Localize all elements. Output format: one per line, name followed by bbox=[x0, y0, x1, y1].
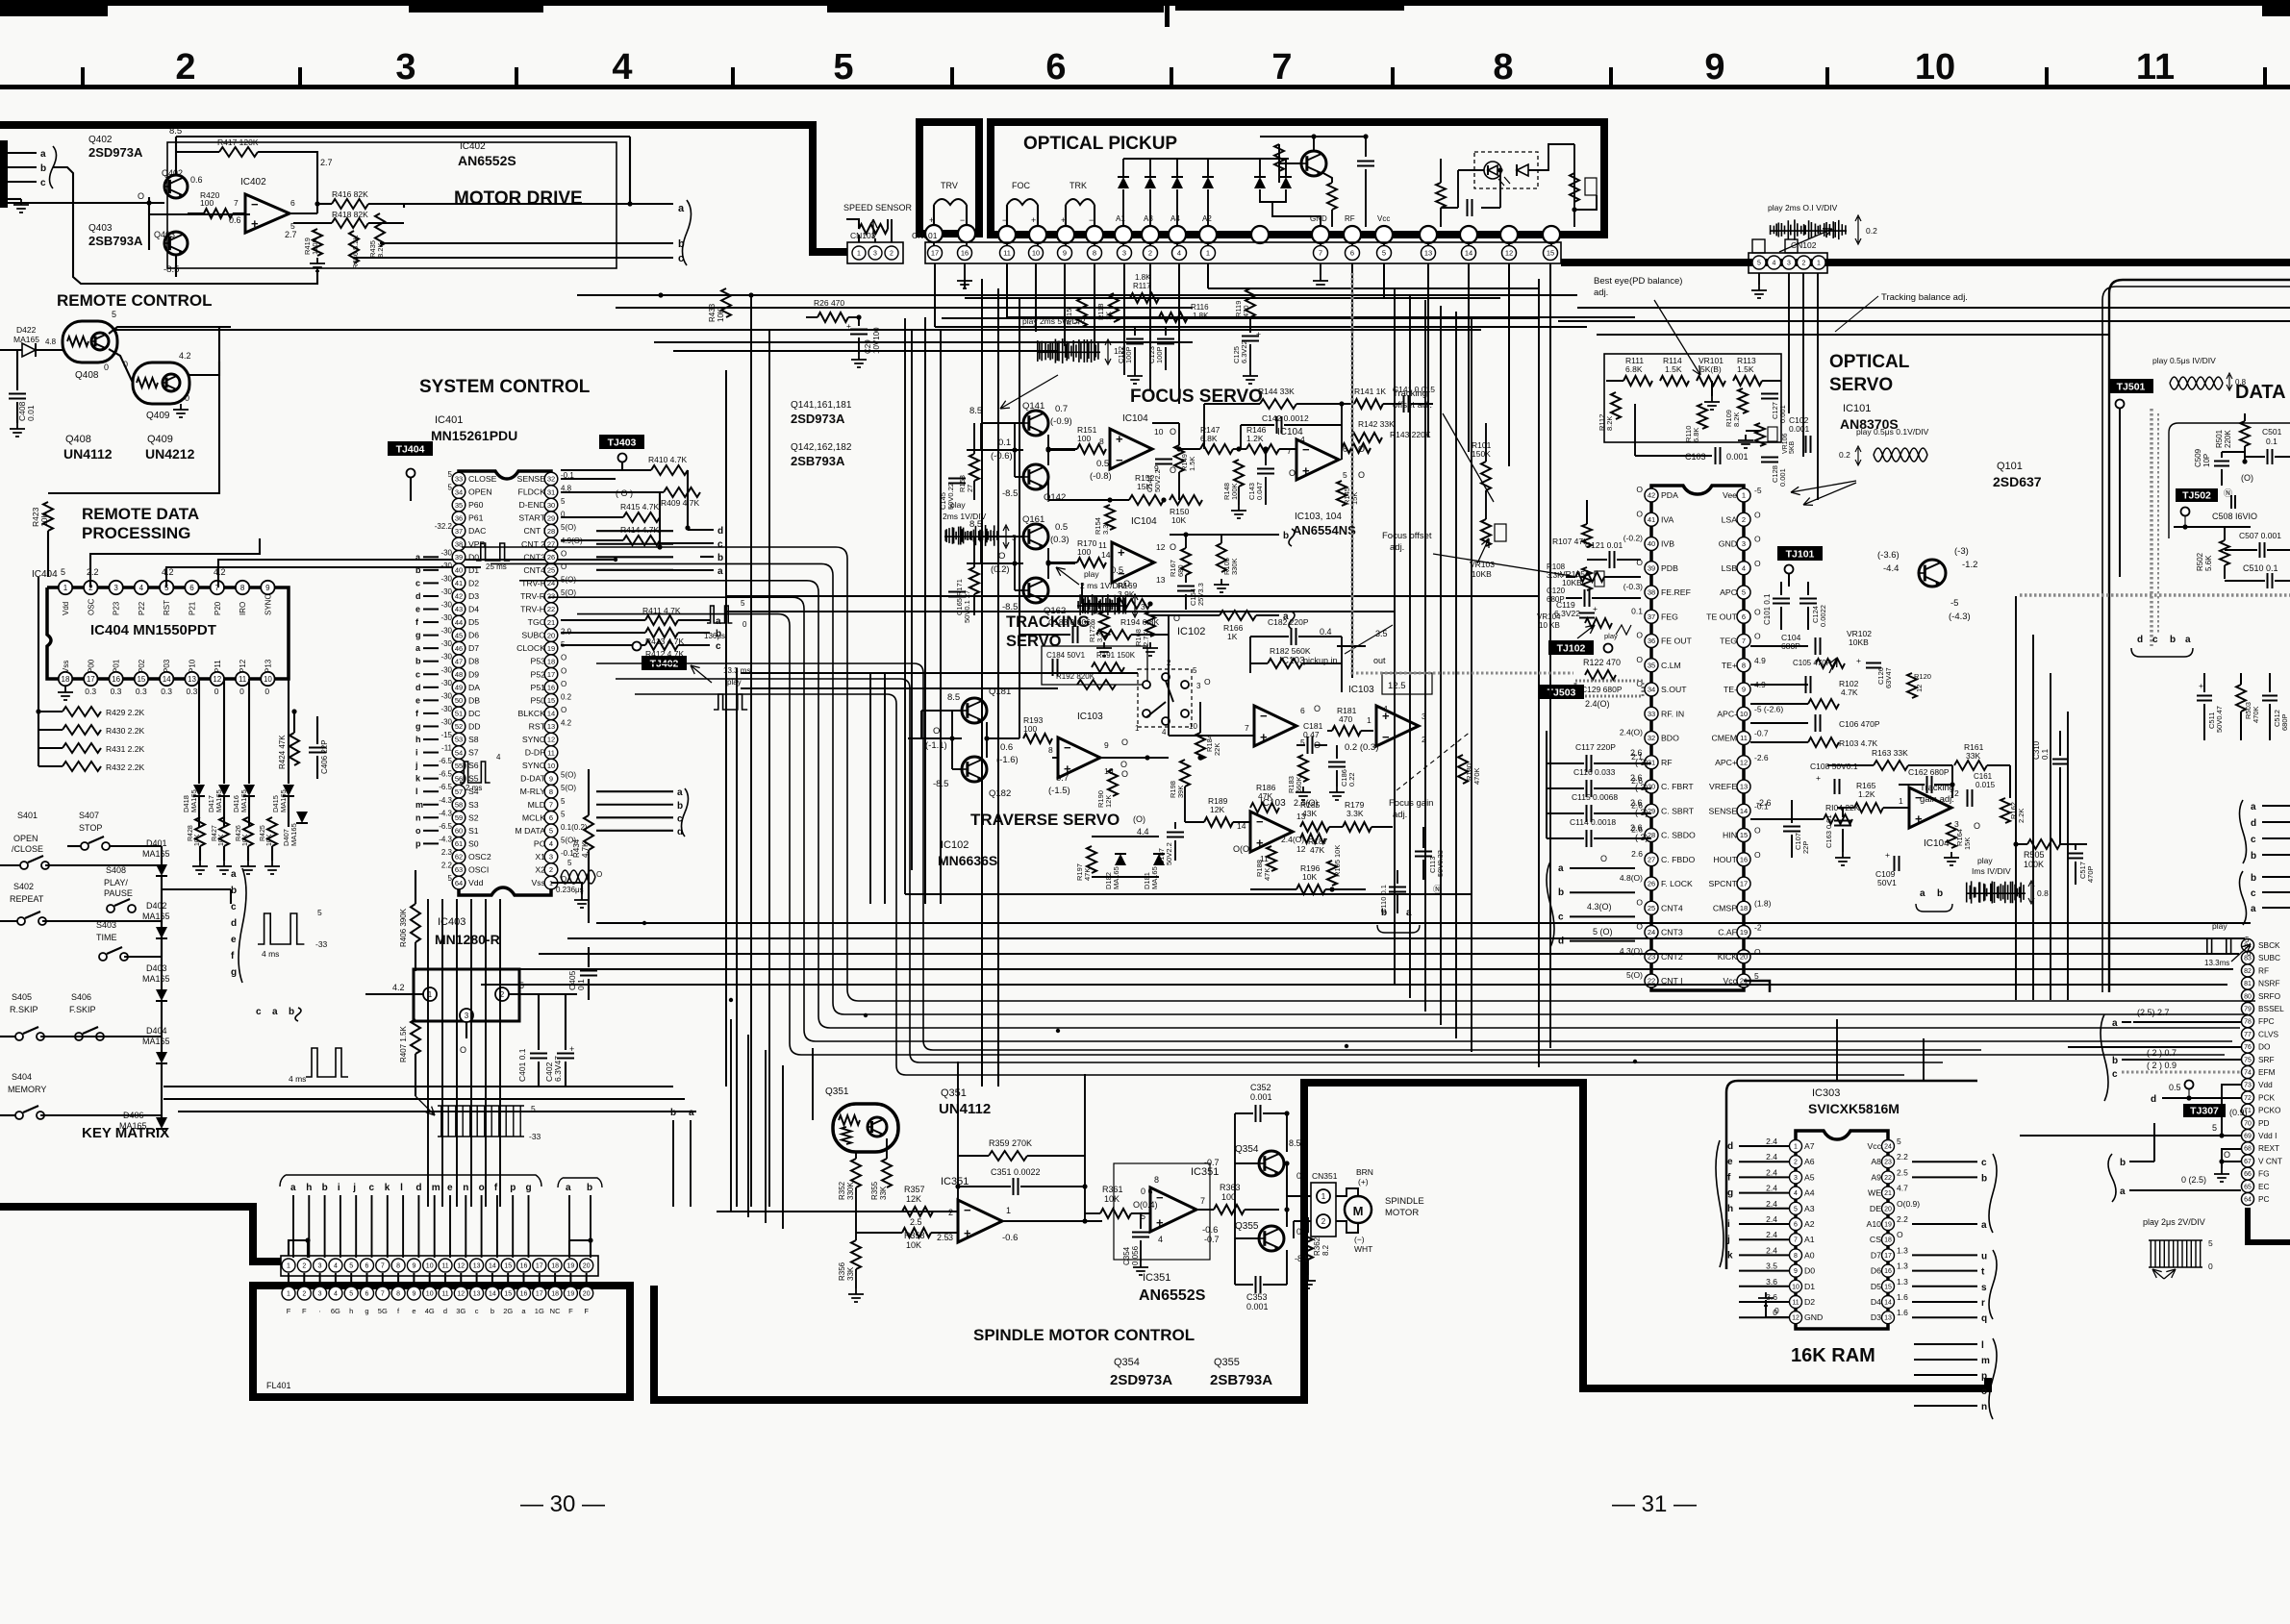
IC403 body bbox=[414, 969, 519, 1021]
svg-text:0.001: 0.001 bbox=[1778, 468, 1787, 487]
svg-text:C142 0.0012: C142 0.0012 bbox=[1262, 413, 1309, 423]
wire top 8.5 rail bbox=[176, 136, 630, 137]
svg-text:470: 470 bbox=[1242, 305, 1250, 317]
svg-text:1.2: 1.2 bbox=[1114, 346, 1125, 356]
svg-text:-33: -33 bbox=[315, 939, 328, 949]
svg-text:A7: A7 bbox=[1804, 1141, 1815, 1151]
svg-text:64: 64 bbox=[2244, 1197, 2252, 1204]
resistor R430 2.2K bbox=[63, 725, 101, 735]
svg-text:35: 35 bbox=[1648, 661, 1655, 669]
op-amp IC104 focus C bbox=[1296, 439, 1339, 480]
svg-text:0: 0 bbox=[104, 362, 109, 372]
svg-text:2.6: 2.6 bbox=[1630, 823, 1643, 833]
svg-text:0: 0 bbox=[742, 620, 747, 629]
svg-text:13: 13 bbox=[1424, 249, 1432, 258]
svg-text:b: b bbox=[2170, 635, 2176, 645]
svg-text:S408: S408 bbox=[106, 865, 126, 875]
svg-text:C508 I6VIO: C508 I6VIO bbox=[2212, 512, 2257, 521]
svg-text:-2.6: -2.6 bbox=[1754, 753, 1769, 762]
svg-text:1: 1 bbox=[1742, 491, 1746, 500]
svg-text:R429 2.2K: R429 2.2K bbox=[106, 708, 144, 717]
svg-text:SERVO: SERVO bbox=[1829, 375, 1893, 395]
resistor R184 22K bbox=[1195, 733, 1205, 760]
svg-text:23: 23 bbox=[1884, 1160, 1892, 1166]
svg-text:b: b bbox=[1381, 908, 1387, 918]
svg-text:-30: -30 bbox=[440, 562, 452, 570]
svg-text:C.AF: C.AF bbox=[1718, 928, 1737, 937]
svg-text:NSRF: NSRF bbox=[2258, 979, 2280, 988]
svg-text:Q182: Q182 bbox=[989, 788, 1011, 799]
svg-text:2.2: 2.2 bbox=[441, 862, 453, 870]
svg-text:5(O): 5(O) bbox=[561, 771, 576, 780]
svg-text:36: 36 bbox=[1648, 637, 1655, 645]
svg-text:+: + bbox=[1260, 730, 1268, 744]
svg-text:34: 34 bbox=[455, 487, 463, 496]
svg-text:C510 0.1: C510 0.1 bbox=[2243, 563, 2278, 573]
svg-text:11: 11 bbox=[547, 748, 555, 757]
svg-text:OPEN: OPEN bbox=[468, 487, 492, 497]
svg-text:-32.2: -32.2 bbox=[435, 522, 453, 531]
svg-text:0.6: 0.6 bbox=[1000, 742, 1013, 753]
svg-text:P22: P22 bbox=[138, 601, 146, 615]
svg-text:b: b bbox=[677, 801, 683, 812]
svg-text:d: d bbox=[2151, 1094, 2156, 1105]
svg-text:2: 2 bbox=[1802, 261, 1806, 267]
svg-text:MA165: MA165 bbox=[189, 789, 198, 812]
svg-text:+: + bbox=[1885, 850, 1890, 860]
svg-text:79: 79 bbox=[2244, 1007, 2252, 1013]
svg-text:10K: 10K bbox=[1171, 515, 1186, 525]
waveform 2ms at RST bbox=[460, 762, 491, 783]
comb waveform data stream bbox=[438, 1106, 524, 1137]
svg-text:R26 470: R26 470 bbox=[814, 298, 844, 308]
svg-text:3: 3 bbox=[1122, 249, 1126, 258]
svg-text:O: O bbox=[1754, 607, 1761, 616]
svg-text:D1: D1 bbox=[1804, 1282, 1815, 1291]
svg-text:5(O): 5(O) bbox=[561, 523, 576, 532]
svg-text:4.2: 4.2 bbox=[392, 983, 405, 992]
svg-text:13: 13 bbox=[1740, 783, 1748, 791]
svg-text:8: 8 bbox=[396, 1263, 400, 1270]
svg-text:SYNC: SYNC bbox=[522, 761, 545, 770]
wire: horizontal bus group below servos bbox=[596, 922, 2251, 924]
svg-text:+: + bbox=[569, 1044, 574, 1054]
capacitor C408 0.01 bbox=[16, 350, 18, 390]
svg-text:+: + bbox=[1302, 463, 1310, 478]
svg-text:12.5: 12.5 bbox=[1388, 681, 1406, 691]
svg-text:O: O bbox=[1974, 821, 1980, 831]
svg-text:R425: R425 bbox=[260, 825, 266, 841]
op-amp IC104 D bbox=[1909, 787, 1951, 828]
svg-text:MN15261PDU: MN15261PDU bbox=[431, 428, 517, 443]
svg-text:e: e bbox=[415, 695, 420, 705]
svg-text:5: 5 bbox=[1757, 261, 1761, 267]
resistor R417 120K bbox=[219, 147, 258, 157]
resistor R435 8.2K bbox=[375, 213, 385, 246]
svg-text:SUBC: SUBC bbox=[2258, 953, 2280, 962]
svg-text:S402: S402 bbox=[13, 882, 34, 891]
wire Q409 collector down to IC404 bbox=[48, 375, 219, 493]
svg-text:560K: 560K bbox=[1295, 776, 1303, 793]
svg-text:IVA: IVA bbox=[1661, 514, 1674, 524]
wires IC401 right side M-RLY MLD etc to a b c d bbox=[596, 790, 673, 792]
motor drive circuit outline box bbox=[167, 142, 617, 268]
svg-text:S404: S404 bbox=[12, 1072, 32, 1082]
svg-text:0.001: 0.001 bbox=[1778, 405, 1787, 423]
svg-text:2.2: 2.2 bbox=[1897, 1152, 1908, 1162]
svg-text:C406 22P: C406 22P bbox=[320, 739, 329, 774]
svg-text:60: 60 bbox=[455, 827, 463, 836]
svg-text:0.047: 0.047 bbox=[1255, 482, 1264, 500]
capacitor C402 6.3V47 bbox=[557, 1054, 574, 1059]
svg-text:UN4112: UN4112 bbox=[939, 1101, 991, 1117]
svg-text:−: − bbox=[251, 197, 259, 212]
svg-text:i: i bbox=[415, 748, 418, 758]
svg-text:4: 4 bbox=[1742, 563, 1746, 572]
svg-text:-30: -30 bbox=[440, 665, 452, 674]
resistor R180 470K bbox=[1458, 755, 1468, 784]
svg-text:4.3(O): 4.3(O) bbox=[1587, 902, 1612, 912]
svg-text:2: 2 bbox=[948, 1208, 953, 1217]
svg-text:IC102: IC102 bbox=[1177, 626, 1205, 637]
svg-text:R191 150K: R191 150K bbox=[1096, 651, 1136, 660]
svg-text:-4.4: -4.4 bbox=[1883, 563, 1899, 574]
svg-text:6: 6 bbox=[189, 584, 194, 592]
svg-text:CS: CS bbox=[1870, 1235, 1881, 1244]
IC401 body bbox=[459, 471, 551, 895]
ruler line bbox=[0, 85, 2290, 89]
svg-text:1: 1 bbox=[1794, 1144, 1798, 1151]
wire: horizontals from CN101 area to right bbox=[1208, 287, 1539, 289]
svg-text:4: 4 bbox=[334, 1263, 338, 1270]
transistor Q162 bbox=[1023, 578, 1048, 603]
svg-text:IC402: IC402 bbox=[240, 177, 266, 187]
svg-text:12: 12 bbox=[1792, 1315, 1799, 1322]
transistor Q161 bbox=[1023, 524, 1048, 549]
svg-text:0.3: 0.3 bbox=[111, 687, 122, 696]
svg-text:0.6: 0.6 bbox=[190, 175, 203, 185]
svg-text:REMOTE DATA: REMOTE DATA bbox=[82, 505, 199, 523]
svg-text:UN4112: UN4112 bbox=[63, 446, 113, 462]
svg-text:57: 57 bbox=[455, 787, 463, 796]
svg-text:MA165: MA165 bbox=[289, 823, 298, 846]
svg-text:MA165: MA165 bbox=[142, 849, 170, 859]
svg-text:O: O bbox=[1173, 613, 1180, 623]
svg-text:MOTOR: MOTOR bbox=[1385, 1208, 1419, 1218]
svg-text:0.7: 0.7 bbox=[1056, 773, 1069, 784]
svg-text:7: 7 bbox=[1287, 446, 1292, 456]
svg-text:0.5: 0.5 bbox=[1096, 459, 1109, 469]
svg-text:a: a bbox=[2120, 1187, 2126, 1197]
svg-text:10K: 10K bbox=[1302, 872, 1317, 882]
svg-text:3: 3 bbox=[1794, 1175, 1798, 1182]
wire: second nested corner group bbox=[596, 663, 1981, 1050]
svg-text:c: c bbox=[717, 539, 723, 550]
svg-text:3.9K: 3.9K bbox=[1118, 589, 1135, 599]
svg-text:C507 0.001: C507 0.001 bbox=[2239, 531, 2281, 540]
svg-text:11: 11 bbox=[1792, 1300, 1799, 1307]
svg-text:RF: RF bbox=[2258, 965, 2269, 975]
svg-text:1: 1 bbox=[1817, 261, 1821, 267]
IC401 bottom Vss ground bbox=[551, 883, 582, 894]
svg-text:5KB: 5KB bbox=[1789, 440, 1796, 454]
svg-text:+: + bbox=[964, 1226, 971, 1240]
svg-text:Q409: Q409 bbox=[147, 434, 173, 445]
svg-text:LSA: LSA bbox=[1722, 514, 1738, 524]
svg-text:e: e bbox=[415, 605, 420, 614]
svg-text:C117 220P: C117 220P bbox=[1575, 742, 1616, 752]
svg-text:9: 9 bbox=[1794, 1268, 1798, 1275]
svg-text:IC401: IC401 bbox=[435, 414, 463, 426]
svg-text:R410 4.7K: R410 4.7K bbox=[648, 455, 687, 464]
resistor R362 8.2 bbox=[1303, 1233, 1313, 1260]
svg-text:C353: C353 bbox=[1246, 1292, 1268, 1302]
svg-text:5: 5 bbox=[1343, 470, 1347, 480]
svg-text:5: 5 bbox=[561, 797, 566, 806]
svg-text:IC103: IC103 bbox=[1077, 712, 1103, 722]
svg-text:R117: R117 bbox=[1133, 282, 1151, 290]
svg-text:CNT4: CNT4 bbox=[523, 565, 545, 575]
svg-text:F.SKIP: F.SKIP bbox=[69, 1005, 96, 1014]
svg-text:D-DAT: D-DAT bbox=[520, 774, 546, 784]
svg-text:0.1: 0.1 bbox=[998, 437, 1011, 448]
svg-text:6: 6 bbox=[1045, 47, 1066, 87]
resistor R193 100 bbox=[1023, 734, 1052, 743]
wires pickup pins to CN101 bbox=[1006, 243, 1008, 246]
svg-text:D8: D8 bbox=[468, 657, 479, 666]
capacitor C187 50V2.2 bbox=[1167, 833, 1184, 837]
svg-text:c: c bbox=[256, 1007, 262, 1017]
svg-text:C162 680P: C162 680P bbox=[1908, 767, 1950, 777]
svg-text:PCK: PCK bbox=[2258, 1092, 2276, 1102]
svg-text:S401: S401 bbox=[17, 811, 38, 820]
wire: nested corner bus d-c-b-a to bottom bus bbox=[462, 547, 2255, 1001]
svg-text:0.5: 0.5 bbox=[1055, 522, 1068, 533]
svg-text:s: s bbox=[1981, 1283, 1987, 1293]
svg-text:7: 7 bbox=[234, 198, 239, 208]
svg-text:PCKO: PCKO bbox=[2258, 1106, 2281, 1115]
IC101 right pins 1-21 bbox=[1737, 488, 1750, 502]
left edge connector pins a b c bbox=[0, 140, 8, 208]
svg-text:R356: R356 bbox=[838, 1262, 846, 1281]
node c output wire bbox=[354, 257, 673, 259]
IC351 box outline bbox=[1114, 1163, 1210, 1260]
svg-text:R361: R361 bbox=[1102, 1185, 1123, 1194]
svg-text:R103 4.7K: R103 4.7K bbox=[1839, 738, 1877, 748]
svg-text:O: O bbox=[1754, 826, 1761, 836]
resistor R147 6.8K bbox=[1200, 444, 1233, 454]
svg-text:17: 17 bbox=[547, 670, 555, 679]
svg-text:0.01: 0.01 bbox=[26, 405, 36, 421]
svg-text:h: h bbox=[415, 735, 421, 744]
svg-text:1.8K: 1.8K bbox=[1135, 273, 1151, 282]
svg-text:VREFE: VREFE bbox=[1709, 782, 1737, 791]
svg-text:b: b bbox=[322, 1183, 328, 1193]
svg-text:1: 1 bbox=[63, 584, 68, 592]
wire: long vertical pair x781 x800 bbox=[750, 295, 752, 1207]
svg-text:5(O): 5(O) bbox=[561, 784, 576, 792]
svg-text:13: 13 bbox=[473, 1263, 481, 1270]
svg-text:IC101: IC101 bbox=[1843, 403, 1871, 414]
resistor R419 120K bbox=[313, 229, 322, 256]
svg-text:3: 3 bbox=[395, 47, 415, 87]
svg-text:8.5: 8.5 bbox=[969, 406, 982, 416]
svg-text:21: 21 bbox=[1884, 1190, 1892, 1197]
svg-text:o: o bbox=[1981, 1387, 1987, 1397]
capacitor C122 100P bbox=[1126, 339, 1144, 344]
svg-text:D0: D0 bbox=[1804, 1266, 1815, 1276]
test point TJ402 bbox=[642, 656, 687, 670]
svg-text:-11: -11 bbox=[441, 744, 453, 753]
svg-text:5: 5 bbox=[2245, 936, 2250, 944]
svg-text:R182 560K: R182 560K bbox=[1270, 646, 1311, 656]
svg-text:27: 27 bbox=[1648, 855, 1655, 863]
capacitor C354 0.056 bbox=[1132, 1233, 1149, 1237]
svg-text:b: b bbox=[40, 163, 46, 174]
svg-text:1: 1 bbox=[1206, 249, 1210, 258]
wire: bottom long bus into spindle area bbox=[730, 1019, 732, 1212]
svg-text:play: play bbox=[1977, 856, 1993, 865]
svg-text:0.015: 0.015 bbox=[1975, 781, 1996, 789]
svg-text:P13: P13 bbox=[264, 659, 272, 673]
frame: bottom-left keyboard PCB border bbox=[0, 1207, 281, 1262]
svg-text:C101 0.1: C101 0.1 bbox=[1763, 593, 1772, 625]
svg-text:S.OUT: S.OUT bbox=[1661, 685, 1687, 694]
svg-text:Q354: Q354 bbox=[1235, 1144, 1259, 1155]
svg-text:23: 23 bbox=[547, 592, 555, 601]
svg-text:P51: P51 bbox=[531, 683, 546, 692]
svg-text:SPEED SENSOR: SPEED SENSOR bbox=[843, 203, 913, 212]
svg-text:0.001: 0.001 bbox=[1246, 1302, 1269, 1312]
svg-text:8: 8 bbox=[1493, 47, 1513, 87]
svg-text:S1: S1 bbox=[468, 826, 479, 836]
transistor Q402 bbox=[164, 175, 188, 198]
svg-text:R501: R501 bbox=[2215, 429, 2224, 448]
svg-text:APC+: APC+ bbox=[1715, 758, 1737, 767]
svg-text:8.2K: 8.2K bbox=[376, 243, 385, 258]
svg-text:C401 0.1: C401 0.1 bbox=[517, 1048, 527, 1082]
svg-text:50V2.2: 50V2.2 bbox=[1165, 842, 1173, 865]
svg-text:10: 10 bbox=[1792, 1284, 1799, 1290]
svg-text:(-4.3): (-4.3) bbox=[1949, 612, 1971, 622]
svg-text:1: 1 bbox=[1321, 1192, 1326, 1201]
resistor R169 3.9K bbox=[1118, 599, 1150, 609]
svg-text:3: 3 bbox=[1012, 533, 1017, 542]
svg-text:150K: 150K bbox=[1472, 449, 1491, 459]
svg-text:g: g bbox=[415, 631, 421, 640]
svg-text:b: b bbox=[2120, 1158, 2126, 1168]
svg-text:4: 4 bbox=[612, 47, 632, 87]
resistor R183 560K bbox=[1298, 755, 1308, 782]
svg-text:19: 19 bbox=[567, 1263, 575, 1270]
svg-text:SPINDLE: SPINDLE bbox=[1385, 1196, 1424, 1207]
svg-text:10: 10 bbox=[1915, 47, 1955, 87]
svg-text:7: 7 bbox=[1271, 47, 1292, 87]
svg-text:−: − bbox=[1064, 740, 1071, 755]
svg-text:P60: P60 bbox=[468, 500, 484, 510]
svg-text:47K: 47K bbox=[1083, 868, 1092, 881]
svg-text:1.6: 1.6 bbox=[1897, 1292, 1908, 1302]
svg-text:D-DP: D-DP bbox=[525, 748, 545, 758]
resistor R119 470 bbox=[1246, 288, 1255, 317]
svg-text:38: 38 bbox=[455, 539, 463, 548]
svg-text:O: O bbox=[460, 1045, 466, 1055]
svg-text:120K: 120K bbox=[311, 237, 319, 255]
svg-text:CMEM: CMEM bbox=[1711, 734, 1737, 743]
test point TJ501 bbox=[2108, 379, 2153, 393]
svg-text:j: j bbox=[352, 1183, 356, 1193]
frame: OPTICAL PICKUP box bbox=[991, 122, 1604, 235]
svg-text:FE OUT: FE OUT bbox=[1661, 637, 1693, 646]
svg-text:2SD637: 2SD637 bbox=[1993, 474, 2042, 489]
svg-text:R414 4.7K: R414 4.7K bbox=[620, 525, 659, 535]
svg-text:8: 8 bbox=[1154, 1175, 1159, 1185]
svg-text:0.3: 0.3 bbox=[187, 687, 198, 696]
resistor R418 82K bbox=[332, 218, 368, 228]
svg-text:R436 8.2K: R436 8.2K bbox=[351, 236, 360, 269]
svg-text:O: O bbox=[1121, 737, 1128, 747]
svg-text:r: r bbox=[1981, 1298, 1985, 1309]
svg-text:P12: P12 bbox=[239, 659, 247, 673]
svg-text:78: 78 bbox=[2244, 1019, 2252, 1026]
svg-text:8.5: 8.5 bbox=[169, 126, 182, 137]
svg-text:2.4(O): 2.4(O) bbox=[1281, 835, 1304, 844]
svg-text:O(O): O(O) bbox=[1233, 844, 1252, 854]
svg-text:Q402: Q402 bbox=[88, 135, 113, 145]
svg-text:CNT I: CNT I bbox=[523, 526, 545, 536]
svg-text:11: 11 bbox=[441, 1263, 448, 1270]
svg-text:MA165: MA165 bbox=[142, 974, 170, 984]
svg-text:R352: R352 bbox=[838, 1181, 846, 1200]
svg-text:17: 17 bbox=[536, 1263, 543, 1270]
frame: top-left PCB border bbox=[0, 125, 847, 252]
svg-text:O: O bbox=[1754, 947, 1761, 957]
resistor R154 3.3 bbox=[1105, 505, 1115, 530]
svg-text:D402: D402 bbox=[146, 901, 167, 911]
photodiode array A1 A3 A4 A2 bbox=[1118, 177, 1129, 188]
svg-text:-8.5: -8.5 bbox=[164, 264, 179, 275]
svg-text:c: c bbox=[1981, 1158, 1987, 1168]
svg-text:47: 47 bbox=[455, 657, 463, 665]
svg-text:0.3: 0.3 bbox=[85, 687, 96, 696]
svg-text:b: b bbox=[1937, 888, 1943, 899]
resistor R190 12K bbox=[1108, 769, 1118, 796]
svg-text:l: l bbox=[415, 787, 418, 796]
svg-text:0.5: 0.5 bbox=[1111, 565, 1123, 576]
svg-text:Q409: Q409 bbox=[146, 411, 170, 421]
svg-text:32: 32 bbox=[1648, 734, 1655, 742]
svg-text:b: b bbox=[2112, 1056, 2118, 1066]
svg-text:4.7: 4.7 bbox=[1897, 1184, 1908, 1193]
svg-text:SUBO: SUBO bbox=[521, 631, 545, 640]
svg-text:25V3.3: 25V3.3 bbox=[1196, 583, 1205, 606]
svg-text:39: 39 bbox=[1648, 563, 1655, 572]
svg-text:+: + bbox=[251, 216, 259, 231]
svg-text:c: c bbox=[2251, 835, 2256, 845]
svg-text:h: h bbox=[306, 1183, 312, 1193]
svg-text:D7: D7 bbox=[1871, 1250, 1881, 1260]
svg-text:e: e bbox=[447, 1183, 453, 1193]
svg-text:C183 0.0068: C183 0.0068 bbox=[1048, 617, 1095, 627]
svg-text:8.5: 8.5 bbox=[1289, 1138, 1301, 1148]
svg-text:35: 35 bbox=[455, 501, 463, 510]
svg-text:O: O bbox=[1204, 677, 1211, 687]
svg-text:Best eye(PD balance): Best eye(PD balance) bbox=[1594, 276, 1682, 287]
svg-text:DE: DE bbox=[1870, 1204, 1881, 1213]
svg-text:-30: -30 bbox=[440, 601, 452, 610]
svg-text:TRV-R: TRV-R bbox=[520, 591, 545, 601]
wires focus pair bbox=[981, 422, 1023, 424]
